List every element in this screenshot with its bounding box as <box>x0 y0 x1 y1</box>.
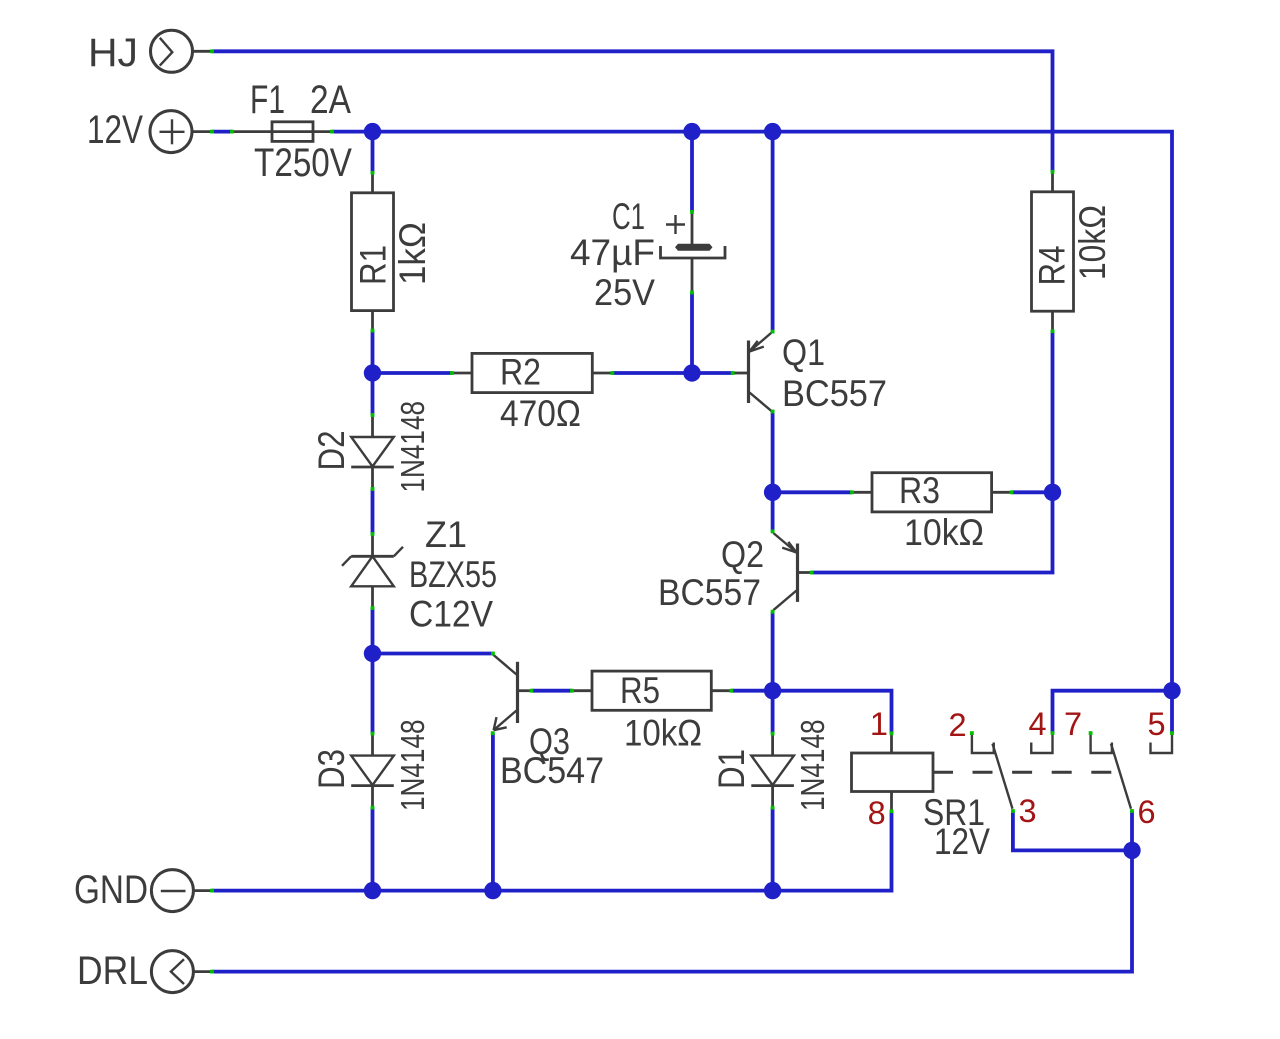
wire junction down to relay pin 5 <box>1170 691 1174 733</box>
wire junction down to Q2 emitter <box>771 492 775 531</box>
terminal GND <box>74 868 214 912</box>
zener Z1 BZX55 C12V <box>342 514 497 635</box>
svg-text:12V: 12V <box>934 821 990 862</box>
wire junction down and left to Q2 base <box>812 492 1053 572</box>
relay contact pin 5 <box>1151 731 1174 753</box>
svg-text:5: 5 <box>1147 706 1165 742</box>
terminal 12V <box>87 108 214 153</box>
relay contact pin 2 <box>970 731 994 753</box>
wire Q2 collector down to R5 junction <box>771 612 775 691</box>
wire D1 cathode to GND rail <box>771 808 775 891</box>
svg-text:1kΩ: 1kΩ <box>392 222 433 285</box>
svg-text:470Ω: 470Ω <box>500 393 581 434</box>
wire C1 bottom to R2 net junction <box>690 293 694 374</box>
svg-text:25V: 25V <box>594 272 655 313</box>
relay contact arm 7-6 <box>1111 744 1131 809</box>
svg-text:12V: 12V <box>87 108 144 152</box>
diode D2 1N4148 <box>311 401 432 493</box>
diode D1 1N4148 <box>711 720 832 812</box>
svg-text:C1: C1 <box>612 196 645 237</box>
node junction R2/C1 <box>683 364 700 381</box>
node junction GND/D3 <box>364 882 381 899</box>
node junction R1/R2/D2 <box>364 364 381 381</box>
wire Q3 emitter down to GND rail <box>491 733 495 890</box>
wire relay pin 6 down to junction <box>1130 811 1134 850</box>
relay contact pin 7 <box>1089 731 1112 753</box>
wire net 12V rail: R1 junction to right edge down to relay pin5 junction <box>373 132 1173 691</box>
resistor R5 10k <box>570 670 733 753</box>
node junction R5/Q2 collector/D1/relay coil <box>764 682 781 699</box>
wire junction to R2 left <box>373 371 453 375</box>
node junction Z1/D3/Q3 collector <box>364 645 381 662</box>
resistor R4 10k <box>1032 170 1114 333</box>
node junction 12V/C1 <box>683 123 700 140</box>
svg-text:1: 1 <box>870 706 888 742</box>
svg-text:D3: D3 <box>311 749 352 789</box>
node junction GND/Q3 emitter <box>484 882 501 899</box>
node junction GND/D1 <box>764 882 781 899</box>
transistor Q1 BC557 (PNP) <box>731 330 887 414</box>
svg-text:10kΩ: 10kΩ <box>904 512 984 553</box>
node junction R3/R4/Q2 base <box>1044 484 1061 501</box>
svg-text:2A: 2A <box>310 78 352 122</box>
wire 12V rail down to C1 top <box>690 132 694 212</box>
wire R5 right to junction <box>731 689 772 693</box>
node junction 12V/Q1 emitter <box>764 123 781 140</box>
svg-text:6: 6 <box>1137 794 1155 830</box>
wire R4 bottom to R3 junction <box>1051 331 1055 492</box>
relay contact pin 4 <box>1031 731 1054 753</box>
node junction 12V/R1 <box>364 123 381 140</box>
wire junction down to D1 anode <box>771 691 775 734</box>
svg-text:C12V: C12V <box>409 594 493 635</box>
wire Q1 collector down to R3 junction <box>771 412 775 493</box>
wire R3 right to R4 junction <box>1012 490 1053 494</box>
svg-text:R3: R3 <box>899 470 940 511</box>
capacitor C1 47uF 25V <box>570 196 725 313</box>
svg-text:3: 3 <box>1018 793 1036 829</box>
wire R2 right to Q1 base, through C1 junction <box>612 371 732 375</box>
relay contact pin 6 <box>1130 809 1134 813</box>
wire net DRL: terminal to relay pin3/6 junction <box>212 850 1132 971</box>
svg-text:Z1: Z1 <box>425 514 467 555</box>
wire net GND: terminal to relay coil pin 8 <box>212 811 892 890</box>
wire relay pin 4 up to junction <box>1053 691 1173 733</box>
svg-text:10kΩ: 10kΩ <box>624 712 702 753</box>
svg-text:Q1: Q1 <box>782 332 825 373</box>
svg-text:7: 7 <box>1064 706 1082 742</box>
svg-text:8: 8 <box>868 795 886 831</box>
svg-text:R2: R2 <box>500 352 541 393</box>
svg-text:T250V: T250V <box>254 141 353 185</box>
svg-text:R5: R5 <box>620 670 660 711</box>
svg-text:1N4148: 1N4148 <box>395 401 432 493</box>
resistor R2 470 <box>450 352 614 435</box>
wire junction down to D3 anode <box>371 654 375 734</box>
diode D3 1N4148 <box>311 720 432 812</box>
wire junction to Q3 collector <box>373 652 493 656</box>
svg-text:BC547: BC547 <box>500 750 604 791</box>
svg-text:Q2: Q2 <box>721 534 764 575</box>
node junction 12V rail/relay pins 4-5 <box>1163 682 1180 699</box>
relay contact pin 3 <box>1011 809 1015 813</box>
svg-text:HJ: HJ <box>88 31 138 75</box>
wire Z1 anode to Q3 junction <box>371 608 375 654</box>
node junction Q1 collector/R3/Q2 emitter <box>764 484 781 501</box>
wire net 12V: F1 to R1 junction <box>332 130 373 134</box>
wire R1 bottom to R2 junction <box>371 331 375 373</box>
svg-text:R1: R1 <box>353 245 394 285</box>
svg-text:2: 2 <box>948 707 966 743</box>
terminal DRL <box>77 949 214 993</box>
wire junction to R3 left <box>773 490 852 494</box>
svg-text:D1: D1 <box>711 749 752 789</box>
wire 12V rail down to Q1 emitter <box>771 132 775 332</box>
transistor Q2 BC557 (PNP, mirrored) <box>658 530 814 614</box>
relay coil SR1 12V <box>852 731 991 862</box>
wire junction down to D2 anode <box>371 373 375 415</box>
relay contact arm 2-3 <box>993 744 1013 809</box>
svg-text:BC557: BC557 <box>658 572 761 613</box>
svg-text:R4: R4 <box>1032 246 1073 286</box>
svg-text:D2: D2 <box>311 431 352 471</box>
transistor Q3 BC547 (NPN, mirrored) <box>491 652 604 791</box>
svg-text:4: 4 <box>1028 706 1046 742</box>
wire net HJ: terminal to R4 top <box>212 51 1053 172</box>
node junction relay pins 3-6/DRL <box>1123 842 1140 859</box>
svg-text:GND: GND <box>74 868 148 912</box>
svg-text:BZX55: BZX55 <box>409 554 497 595</box>
relay contact stub and dashed link <box>933 771 1125 774</box>
svg-text:1N4148: 1N4148 <box>395 720 432 812</box>
svg-text:BC557: BC557 <box>782 373 887 414</box>
wire junction right and down to relay coil pin 1 <box>773 691 892 734</box>
svg-text:DRL: DRL <box>77 949 148 993</box>
svg-text:47µF: 47µF <box>570 232 655 273</box>
svg-text:F1: F1 <box>250 78 285 122</box>
wire Q3 base to R5 left <box>531 689 572 693</box>
resistor R3 10k <box>850 470 1013 553</box>
resistor R1 1k <box>352 171 434 333</box>
fuse F1 2A T250V <box>230 78 352 185</box>
svg-text:10kΩ: 10kΩ <box>1072 205 1113 280</box>
wire net 12V: terminal to F1 <box>212 130 232 134</box>
wire relay pin 3 down to junction <box>1013 811 1132 850</box>
terminal HJ <box>88 30 214 75</box>
wire D2 cathode to Z1 cathode <box>371 489 375 534</box>
wire D3 cathode to GND rail <box>371 808 375 891</box>
wire net 12V: junction down to R1 top <box>371 132 375 173</box>
svg-text:1N4148: 1N4148 <box>795 720 832 812</box>
